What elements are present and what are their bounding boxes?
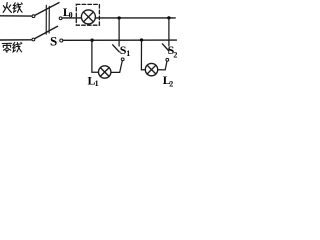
svg-text:2: 2 xyxy=(169,79,173,88)
wire lamp L1 to neutral xyxy=(92,40,99,72)
lamp L1 xyxy=(99,66,111,78)
lamp L0 xyxy=(81,10,95,24)
node junction top rail / S1 branch xyxy=(117,16,120,19)
dashed box around lamp L0 xyxy=(76,4,99,25)
wire from switch to fuse box xyxy=(62,17,82,19)
wire live top rail xyxy=(95,17,175,19)
label 线 second (hand-drawn strokes) xyxy=(13,42,22,52)
switch S2 terminal circle xyxy=(166,58,169,61)
wire S1 to lamp L1 xyxy=(111,61,122,73)
switch S1 terminal circle xyxy=(121,58,124,61)
wire lamp L2 to S2 xyxy=(158,61,167,70)
wire neutral (零线) xyxy=(0,39,32,41)
node junction neutral / L2 xyxy=(140,38,143,41)
label 线 (hand-drawn strokes) xyxy=(13,3,22,13)
node junction top rail / S2 branch xyxy=(167,16,170,19)
label 零 (hand-drawn strokes) xyxy=(2,43,11,52)
knife switch S : bottom pole terminal circle xyxy=(32,38,35,41)
knife switch S : bottom blade xyxy=(35,26,58,38)
svg-text:1: 1 xyxy=(95,79,99,88)
wire live (火线) xyxy=(0,15,32,17)
wire neutral rail xyxy=(63,39,176,41)
node junction neutral / L1 xyxy=(90,39,93,42)
label 火 (hand-drawn strokes) xyxy=(3,3,11,13)
svg-text:1: 1 xyxy=(126,49,130,58)
svg-text:2: 2 xyxy=(173,51,177,60)
svg-text:0: 0 xyxy=(69,10,73,19)
wire neutral to lamp L2 xyxy=(141,40,145,70)
wire S1 branch vertical xyxy=(118,18,120,46)
knife switch S : top pole terminal circle xyxy=(32,15,35,18)
switch S2 blade xyxy=(162,44,169,51)
knife switch S : linking bar right xyxy=(48,6,50,33)
switch S1 blade xyxy=(113,45,120,52)
knife switch S : top right terminal circle xyxy=(59,17,62,20)
knife switch S : bottom right terminal circle xyxy=(60,39,63,42)
svg-text:S: S xyxy=(50,34,57,49)
lamp L2 xyxy=(145,63,157,75)
knife switch S : top blade xyxy=(35,3,59,16)
wire S2 branch vertical xyxy=(168,18,170,46)
knife switch S : linking bar left xyxy=(45,5,47,34)
